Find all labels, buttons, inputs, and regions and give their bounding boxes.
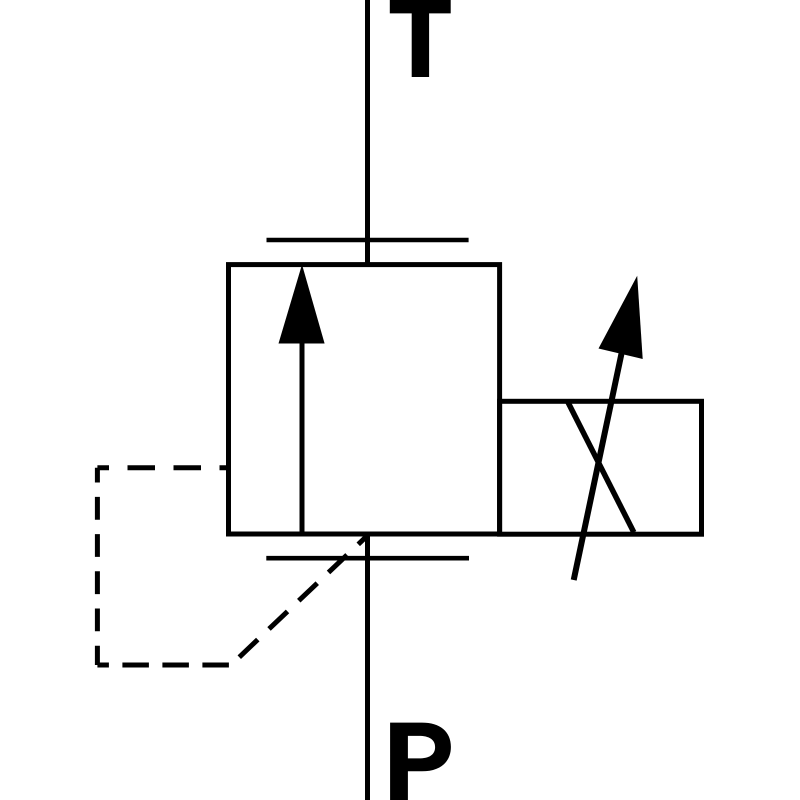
flow arrow shaft (300, 341, 305, 534)
pilot line dashed left vertical (95, 468, 100, 665)
pilot line dashed top horizontal (97, 465, 228, 470)
valve envelope (229, 265, 500, 534)
flow arrow head (279, 265, 325, 344)
solenoid box (500, 401, 702, 534)
port tick bottom (266, 556, 469, 561)
wire P port line (365, 534, 370, 800)
label T (390, 0, 451, 77)
pilot line dashed bottom horizontal (97, 663, 231, 668)
adjustment arrow head (599, 276, 643, 359)
port tick top (267, 238, 469, 243)
pilot line dashed diagonal (231, 536, 368, 666)
wire T port line (365, 0, 370, 267)
solenoid diagonal (568, 402, 634, 533)
label P (390, 723, 451, 800)
adjustment arrow shaft (574, 318, 629, 580)
